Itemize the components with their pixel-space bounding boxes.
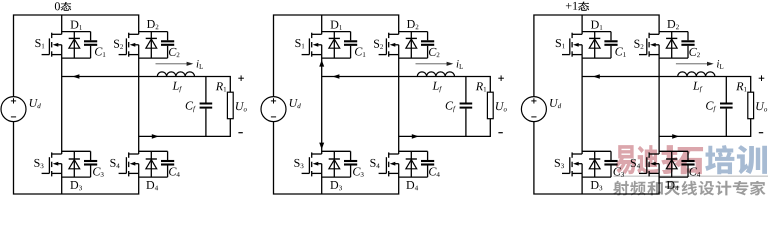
label D3 (circuit 3)	[591, 181, 599, 189]
capacitor C1 (circuit 1)	[90, 32, 92, 41]
wire S1 drain riser (circuit 1)	[61, 15, 63, 34]
transistor S2 (MOSFET) (circuit 1)	[119, 54, 127, 56]
wire S4 cell top node (circuit 3)	[659, 150, 688, 152]
diode D4 (circuit 3)	[671, 151, 673, 177]
label S1 (circuit 1)	[35, 39, 40, 47]
capacitor Cf (circuit 2)	[465, 77, 467, 103]
transistor S1 (MOSFET) (circuit 2)	[302, 54, 310, 56]
wire S4 cell top node (circuit 2)	[399, 150, 428, 152]
label state (circuit 3)	[566, 3, 572, 9]
wire output return node B (circuit 3)	[659, 119, 751, 137]
label D4 (circuit 2)	[406, 181, 414, 189]
label D2 (circuit 2)	[407, 20, 415, 28]
label Ud (circuit 2)	[290, 99, 298, 107]
diode D3 (circuit 3)	[594, 151, 596, 177]
current annotation arrow iL (circuit 1)	[156, 63, 188, 65]
transistor S1 (MOSFET) (circuit 3)	[562, 54, 570, 56]
watermark character 设	[699, 181, 715, 196]
watermark character 拓	[661, 145, 703, 174]
transistor S1 (MOSFET) (circuit 1)	[42, 54, 50, 56]
wire S1 cell bottom node (circuit 3)	[582, 57, 611, 59]
wire positive rail (circuit 1)	[14, 15, 139, 97]
wire S4 cell bottom node (circuit 2)	[399, 176, 428, 178]
watermark character 易	[615, 145, 636, 174]
watermark character 天	[664, 181, 680, 196]
transistor S3 (MOSFET) (circuit 1)	[42, 172, 50, 174]
label C3 (circuit 1)	[93, 167, 100, 175]
watermark underline	[614, 175, 768, 177]
label iL (circuit 2)	[457, 60, 459, 67]
watermark character 训	[737, 145, 767, 174]
current arrow from node B (circuit 2)	[412, 134, 419, 139]
watermark character 专	[733, 181, 749, 196]
wire output node A to filter (circuit 1)	[62, 77, 231, 93]
label D4 (circuit 1)	[146, 181, 154, 189]
label Lf (circuit 1)	[172, 82, 178, 90]
label Uo (circuit 1)	[236, 102, 244, 110]
wire S1 drain riser (circuit 2)	[321, 15, 323, 34]
label D3 (circuit 2)	[330, 181, 338, 189]
capacitor Cf (circuit 1)	[205, 77, 207, 103]
label S2 (circuit 1)	[114, 40, 119, 48]
label D1 (circuit 1)	[71, 21, 79, 29]
label iL (circuit 3)	[717, 60, 719, 67]
capacitor C2 (circuit 3)	[687, 32, 689, 41]
diode D3 (circuit 1)	[73, 151, 75, 177]
watermark character 频	[630, 181, 646, 196]
label C2 (circuit 2)	[429, 48, 436, 56]
wire left leg node A (circuit 1)	[61, 55, 63, 154]
capacitor C3 (circuit 1)	[90, 151, 92, 160]
voltage source Ud (circuit 1)	[1, 97, 26, 122]
label D4 (circuit 3)	[667, 181, 675, 189]
capacitor C3 (circuit 3)	[610, 151, 612, 160]
label Cf (circuit 3)	[706, 102, 713, 110]
transistor S2 (MOSFET) (circuit 3)	[639, 54, 647, 56]
label D2 (circuit 1)	[147, 20, 155, 28]
label Uo (circuit 2)	[496, 102, 504, 110]
label iL (circuit 1)	[197, 60, 199, 67]
capacitor C2 (circuit 1)	[167, 32, 169, 41]
current arrow into node A (circuit 2)	[332, 74, 339, 79]
capacitor C1 (circuit 3)	[610, 32, 612, 41]
inductor Lf (circuit 2)	[417, 72, 454, 77]
wire negative rail (circuit 1)	[14, 122, 139, 194]
label Cf (circuit 2)	[446, 102, 453, 110]
wire S4 cell bottom node (circuit 1)	[139, 176, 168, 178]
current arrow into node A (circuit 1)	[72, 74, 79, 79]
label C1 (circuit 1)	[95, 47, 102, 55]
label C1 (circuit 2)	[355, 47, 362, 55]
wire S3 cell bottom node (circuit 2)	[322, 176, 351, 178]
wire S1 drain riser (circuit 3)	[581, 15, 583, 34]
label S3 (circuit 1)	[34, 159, 39, 167]
wire S3 cell bottom node (circuit 3)	[582, 176, 611, 178]
label R1 (circuit 3)	[736, 82, 743, 90]
voltage source Ud (circuit 3)	[521, 97, 546, 122]
diode D1 (circuit 2)	[333, 32, 335, 58]
wire positive rail (circuit 2)	[274, 15, 399, 97]
wire output node A to filter (circuit 3)	[582, 77, 751, 93]
label output plus (circuit 3)	[759, 77, 765, 79]
watermark character 线	[682, 181, 698, 196]
current arrow into node A (circuit 3)	[593, 74, 600, 79]
watermark character 射	[613, 181, 629, 196]
diode D3 (circuit 2)	[333, 151, 335, 177]
capacitor C2 (circuit 2)	[427, 32, 429, 41]
label S2 (circuit 2)	[374, 40, 379, 48]
diode D2 (circuit 2)	[410, 32, 412, 58]
label C2 (circuit 3)	[689, 48, 696, 56]
wire S1 cell top node (circuit 3)	[582, 31, 611, 33]
label Cf (circuit 1)	[186, 102, 193, 110]
transistor S3 (MOSFET) (circuit 2)	[302, 172, 310, 174]
transistor S2 (MOSFET) (circuit 2)	[379, 54, 387, 56]
label C1 (circuit 3)	[615, 47, 622, 55]
wire right leg node B (circuit 1)	[138, 55, 140, 154]
wire positive rail (circuit 3)	[534, 15, 659, 97]
watermark character 培	[705, 145, 734, 174]
watermark character 家	[750, 181, 766, 196]
inductor Lf (circuit 3)	[678, 72, 715, 77]
label output minus (circuit 3)	[759, 132, 763, 134]
diode D4 (circuit 2)	[410, 151, 412, 177]
transistor S4 (MOSFET) (circuit 1)	[119, 172, 127, 174]
diode D2 (circuit 1)	[150, 32, 152, 58]
wire S2 cell top node (circuit 2)	[399, 31, 428, 33]
current annotation arrow iL (circuit 3)	[676, 63, 708, 65]
wire S4 cell top node (circuit 1)	[139, 150, 168, 152]
label S1 (circuit 3)	[556, 39, 561, 47]
label Uo (circuit 3)	[756, 102, 764, 110]
capacitor C3 (circuit 2)	[350, 151, 352, 160]
watermark character 迪	[637, 145, 658, 174]
current arrow down on left leg (circuit 2)	[319, 143, 324, 150]
label output plus (circuit 1)	[238, 77, 244, 79]
current arrow up on left leg (circuit 2)	[319, 60, 324, 67]
wire S3 cell bottom node (circuit 1)	[62, 176, 91, 178]
wire S1 cell top node (circuit 1)	[62, 31, 91, 33]
label Ud (circuit 3)	[550, 99, 558, 107]
label S4 (circuit 2)	[370, 159, 375, 167]
label C4 (circuit 3)	[689, 167, 696, 175]
resistor R1 (circuit 2)	[487, 92, 493, 119]
wire S2 cell top node (circuit 3)	[659, 31, 688, 33]
wire S3 source drop (circuit 3)	[581, 173, 583, 194]
label C4 (circuit 2)	[429, 167, 436, 175]
current arrow from node B (circuit 3)	[672, 134, 679, 139]
wire S2 cell top node (circuit 1)	[139, 31, 168, 33]
resistor R1 (circuit 1)	[227, 92, 233, 119]
label D2 (circuit 3)	[667, 20, 675, 28]
capacitor C4 (circuit 2)	[427, 151, 429, 160]
label S3 (circuit 2)	[294, 159, 299, 167]
watermark character 和	[647, 181, 663, 196]
label S1 (circuit 2)	[295, 39, 300, 47]
label C3 (circuit 2)	[353, 167, 360, 175]
wire right leg node B (circuit 2)	[398, 55, 400, 154]
wire output node A to filter (circuit 2)	[322, 77, 491, 93]
wire S3 cell top node (circuit 3)	[582, 150, 611, 152]
transistor S3 (MOSFET) (circuit 3)	[562, 172, 570, 174]
wire negative rail (circuit 2)	[274, 122, 399, 194]
label S3 (circuit 3)	[555, 159, 560, 167]
wire S1 cell bottom node (circuit 1)	[62, 57, 91, 59]
label state (circuit 1)	[55, 2, 60, 10]
diode D2 (circuit 3)	[671, 32, 673, 58]
wire S3 source drop (circuit 2)	[321, 173, 323, 194]
label output minus (circuit 2)	[498, 132, 502, 134]
wire S2 cell bottom node (circuit 1)	[139, 57, 168, 59]
label D1 (circuit 3)	[591, 21, 599, 29]
wire S3 cell top node (circuit 1)	[62, 150, 91, 152]
wire output return node B (circuit 1)	[139, 119, 231, 137]
wire right leg node B (circuit 3)	[658, 55, 660, 154]
diode D4 (circuit 1)	[150, 151, 152, 177]
label C3 (circuit 3)	[613, 167, 620, 175]
label S4 (circuit 3)	[631, 159, 636, 167]
label D1 (circuit 2)	[331, 21, 339, 29]
label R1 (circuit 2)	[476, 82, 483, 90]
capacitor C4 (circuit 1)	[167, 151, 169, 160]
current arrow from node B (circuit 1)	[152, 134, 159, 139]
label Lf (circuit 2)	[432, 82, 438, 90]
label C2 (circuit 1)	[169, 48, 176, 56]
wire S4 cell bottom node (circuit 3)	[659, 176, 688, 178]
label Lf (circuit 3)	[693, 82, 699, 90]
wire negative rail (circuit 3)	[534, 122, 659, 194]
watermark character 计	[716, 181, 732, 196]
wire S2 cell bottom node (circuit 3)	[659, 57, 688, 59]
label Ud (circuit 1)	[30, 99, 38, 107]
wire S3 cell top node (circuit 2)	[322, 150, 351, 152]
label S4 (circuit 1)	[110, 159, 115, 167]
resistor R1 (circuit 3)	[748, 92, 754, 119]
wire S3 source drop (circuit 1)	[61, 173, 63, 194]
wire left leg node A (circuit 2)	[321, 55, 323, 154]
inductor Lf (circuit 1)	[157, 72, 194, 77]
wire output return node B (circuit 2)	[399, 119, 491, 137]
current annotation arrow iL (circuit 2)	[416, 63, 448, 65]
label D3 (circuit 1)	[70, 181, 78, 189]
capacitor C1 (circuit 2)	[350, 32, 352, 41]
wire S2 cell bottom node (circuit 2)	[399, 57, 428, 59]
transistor S4 (MOSFET) (circuit 3)	[639, 172, 647, 174]
diode D1 (circuit 1)	[73, 32, 75, 58]
label output plus (circuit 2)	[498, 77, 504, 79]
wire left leg node A (circuit 3)	[581, 55, 583, 154]
diode D1 (circuit 3)	[594, 32, 596, 58]
voltage source Ud (circuit 2)	[261, 97, 286, 122]
label S2 (circuit 3)	[634, 40, 639, 48]
capacitor Cf (circuit 3)	[725, 77, 727, 103]
label output minus (circuit 1)	[238, 132, 242, 134]
label R1 (circuit 1)	[216, 82, 223, 90]
transistor S4 (MOSFET) (circuit 2)	[379, 172, 387, 174]
capacitor C4 (circuit 3)	[687, 151, 689, 160]
wire S1 cell top node (circuit 2)	[322, 31, 351, 33]
wire S1 cell bottom node (circuit 2)	[322, 57, 351, 59]
label C4 (circuit 1)	[169, 167, 176, 175]
